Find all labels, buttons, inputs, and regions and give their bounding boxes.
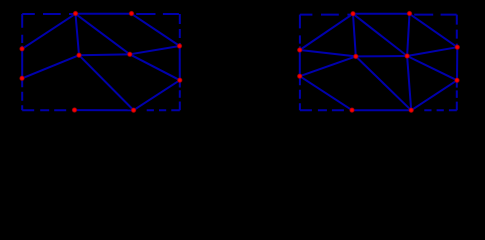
edge A1-C1 [76,14,80,55]
edge I2-J2 [411,80,457,110]
node F2 [407,11,413,17]
edge G2-H1 [300,56,356,76]
node E2 [131,107,137,113]
node C2 [127,51,133,57]
edge B2-C1 [22,55,79,78]
edge F1-H1 [353,14,356,57]
edge H2-J1 [407,47,457,56]
node E1 [72,107,78,113]
right figure dashed border left [299,15,301,50]
node G1 [297,47,303,53]
node I2 [408,107,414,113]
edge A2-D1 [132,14,180,46]
node B2 [19,75,25,81]
edge G1-H1 [300,50,356,56]
edge A1-C2 [76,14,130,55]
node H1 [353,53,359,59]
edge A1-A2 [76,13,132,15]
edge H1-H2 [356,55,407,57]
node I1 [349,107,355,113]
edge C1-E2 [79,55,134,110]
edge H2-J2 [407,56,457,80]
edge C2-D1 [130,46,180,54]
edge H2-I2 [407,56,411,110]
left figure dashed border right [179,14,181,46]
edge F2-J1 [410,14,458,47]
right figure dashed border top [300,14,353,16]
node D2 [177,77,183,83]
edge G2-I1 [300,76,352,110]
edge F1-H2 [353,14,407,56]
left figure dashed border left [21,14,23,49]
edge C2-D2 [130,54,180,80]
edge D1-D2 [179,46,181,80]
node F1 [350,11,356,17]
edge B1-B2 [21,49,23,79]
node J1 [454,44,460,50]
edge I1-I2 [352,109,411,111]
edge D2-E2 [134,80,180,110]
node A2 [129,11,135,17]
edge F1-G1 [300,14,353,50]
node B1 [19,46,25,52]
edge F1-F2 [353,13,410,15]
left figure dashed border bottom [22,109,74,111]
left figure dashed border top [22,13,75,15]
node J2 [454,77,460,83]
edge A1-B1 [22,14,75,49]
node A1 [73,11,79,17]
right figure dashed border bottom [300,109,352,111]
node G2 [297,73,303,79]
node D1 [177,43,183,49]
edge H1-I2 [356,56,411,110]
edge J1-J2 [456,47,458,80]
node H2 [404,53,410,59]
edge G1-G2 [299,50,301,76]
right figure dashed border right [456,15,458,48]
edge C1-C2 [79,53,130,56]
edge E1-E2 [75,109,134,111]
edge F2-H2 [407,14,409,56]
node C1 [76,52,82,58]
